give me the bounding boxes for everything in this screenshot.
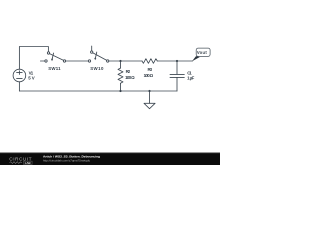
resistor R3 bbox=[142, 59, 157, 64]
wire bottom rail bbox=[19, 90, 177, 92]
svg-text:R3: R3 bbox=[148, 67, 153, 72]
capacitor C1 bbox=[170, 74, 184, 77]
net flag Vout bbox=[192, 48, 210, 61]
svg-text:http://circuitlab.com/c7qma75n: http://circuitlab.com/c7qma75nwtqdy bbox=[43, 158, 90, 162]
svg-text:SW11: SW11 bbox=[48, 66, 61, 71]
switch SW11 bbox=[40, 52, 65, 62]
footer bar bbox=[0, 153, 220, 165]
wire node B to Vout flag bbox=[177, 60, 193, 62]
svg-text:SW10: SW10 bbox=[90, 66, 104, 71]
svg-text:5 V: 5 V bbox=[28, 76, 34, 81]
svg-text:1 µF: 1 µF bbox=[187, 76, 195, 81]
wire V1 top to SW11 bbox=[19, 47, 48, 70]
wire V1 bottom lead bbox=[18, 82, 20, 91]
svg-text:V1: V1 bbox=[29, 70, 34, 75]
switch SW10 bbox=[88, 46, 109, 62]
wire node B to C1 bbox=[176, 61, 178, 74]
svg-text:R2: R2 bbox=[126, 69, 131, 74]
node A junction dot bbox=[119, 60, 121, 62]
wire SW10 to node A bbox=[109, 60, 121, 62]
resistor R2 bbox=[118, 68, 123, 84]
wire C1 bottom bbox=[176, 78, 178, 91]
node B junction dot bbox=[176, 60, 178, 62]
svg-text:Vout: Vout bbox=[197, 50, 207, 55]
node C junction dot (R2 bottom) bbox=[119, 90, 121, 92]
wire node A to R2 bbox=[120, 61, 122, 68]
voltage source V1 bbox=[13, 69, 26, 82]
wire R2 bottom bbox=[120, 84, 122, 91]
svg-text:100 Ω: 100 Ω bbox=[125, 75, 135, 80]
logo CIRCUIT LAB bbox=[9, 156, 32, 165]
ground bbox=[144, 91, 155, 109]
wire node A to R3 bbox=[121, 60, 143, 62]
svg-text:100 Ω: 100 Ω bbox=[144, 73, 154, 78]
svg-text:LAB: LAB bbox=[25, 161, 31, 165]
node D junction dot (ground) bbox=[148, 90, 150, 92]
wire SW11 to SW10 bbox=[66, 60, 89, 62]
wire R3 to node B bbox=[157, 60, 177, 62]
